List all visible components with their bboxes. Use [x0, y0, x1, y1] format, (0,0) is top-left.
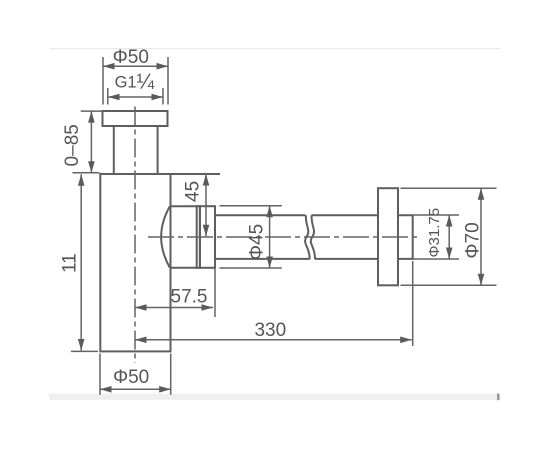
svg-text:Φ50: Φ50: [113, 47, 149, 68]
dim Phi45 ext: [220, 206, 282, 268]
dim 45 line: [205, 174, 207, 236]
arrow Phi50 top left: [103, 63, 115, 70]
top flange: [103, 111, 168, 126]
svg-text:11: 11: [59, 253, 80, 273]
dim Phi31.75 line: [448, 215, 450, 259]
outlet stub: [171, 206, 197, 268]
label Phi70: [463, 222, 484, 258]
body top extension: [171, 173, 221, 175]
photo top edge: [50, 48, 500, 49]
dim 330 ext: [412, 261, 414, 346]
arrow 330 left: [135, 337, 147, 344]
dim 11 line: [80, 174, 82, 350]
arrow G1 right: [152, 94, 164, 101]
svg-text:G1¼: G1¼: [115, 70, 155, 93]
dim 57.5 ext: [214, 261, 216, 318]
dim 0-85 ext: [73, 111, 103, 173]
label Phi50 top: [113, 47, 149, 68]
arrow 11 up: [78, 174, 85, 186]
scrollbar band: [49, 394, 499, 400]
dim Phi50 bottom line: [100, 388, 171, 390]
arrow Phi50 top right: [157, 63, 169, 70]
arrow 57.5 left: [135, 304, 147, 311]
body: [100, 174, 170, 351]
arrow 0-85 down: [88, 161, 95, 173]
arrow Phi45 up: [266, 206, 273, 218]
break curve right: [311, 215, 315, 259]
dim Phi70 line: [480, 188, 482, 285]
wall flange: [378, 188, 398, 285]
break curve left: [305, 215, 310, 259]
arrow 330 right: [400, 337, 412, 344]
arrow Phi50 bottom right: [159, 386, 171, 393]
svg-text:Φ70: Φ70: [463, 222, 484, 258]
dim Phi50 top ext: [103, 57, 168, 105]
compression ring: [197, 206, 200, 268]
inlet pipe: [114, 126, 158, 174]
dim Phi31.75 ext: [413, 215, 459, 259]
svg-text:Φ50: Φ50: [113, 367, 149, 388]
arrow 45 down: [203, 225, 210, 237]
dim Phi70 ext: [401, 188, 497, 285]
arrow Phi70 down: [478, 274, 485, 286]
dim 0-85 line: [90, 111, 92, 173]
dim G1 line: [108, 96, 163, 98]
arrow Phi45 down: [266, 257, 273, 269]
dim 11 ext: [71, 350, 98, 352]
dim Phi50 bottom ext: [100, 354, 171, 395]
label Phi45: [246, 224, 267, 260]
horizontal centerline: [148, 236, 418, 238]
svg-text:Φ31.75: Φ31.75: [426, 208, 443, 258]
label Phi31.75: [426, 208, 443, 258]
scrollbar tick: [497, 394, 500, 401]
arrow Phi50 bottom left: [100, 386, 112, 393]
outlet stub right: [398, 215, 413, 259]
dim Phi45 line: [269, 206, 271, 268]
svg-text:45: 45: [183, 181, 204, 202]
dim G1 ext: [108, 88, 163, 105]
label 330: [254, 320, 286, 341]
pipe bottom: [215, 258, 378, 260]
label G1-1/4: [115, 70, 155, 93]
arrow 0-85 up: [88, 111, 95, 123]
svg-text:0–85: 0–85: [62, 124, 83, 166]
label 0-85: [62, 124, 83, 166]
dim 57.5 line: [135, 307, 213, 309]
arrow Phi31.75 up: [446, 215, 453, 227]
arrow 11 down: [78, 339, 85, 351]
outlet nut: [200, 206, 215, 268]
svg-text:330: 330: [254, 320, 286, 341]
internal arc: [161, 206, 170, 267]
pipe top: [215, 214, 378, 216]
arrow Phi31.75 down: [446, 248, 453, 260]
label 45: [183, 181, 204, 202]
arrow G1 left: [108, 94, 120, 101]
vertical centerline: [134, 107, 136, 364]
svg-text:Φ45: Φ45: [246, 224, 267, 260]
arrow 57.5 right: [202, 304, 214, 311]
arrow Phi70 up: [478, 188, 485, 200]
label 57.5: [171, 287, 208, 308]
label Phi50 bottom: [113, 367, 149, 388]
arrow 45 up: [203, 174, 210, 186]
label 11: [59, 253, 80, 273]
dim Phi50 top line: [103, 65, 168, 67]
svg-text:57.5: 57.5: [171, 287, 208, 308]
dim 330 line: [135, 339, 412, 341]
